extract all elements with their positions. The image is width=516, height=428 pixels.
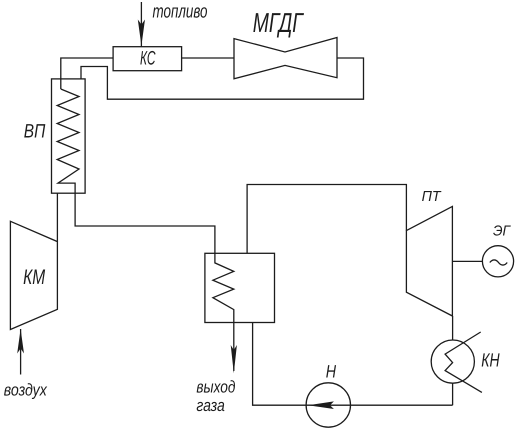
steam generator box	[205, 253, 275, 322]
steam wire to turbine ПТ	[247, 185, 406, 254]
svg-text:МГДГ: МГДГ	[253, 7, 304, 38]
wire МГДГ outlet to ВП shell top	[81, 58, 364, 99]
ВП coil zigzag	[57, 89, 79, 193]
gas exhaust arrow (выход газа)	[231, 323, 237, 374]
wire condenser to pump line	[452, 383, 454, 405]
wire КС to МГДГ	[182, 57, 234, 59]
svg-text:Н: Н	[326, 361, 337, 381]
svg-text:выход: выход	[196, 378, 235, 397]
condensate wire КН to steam generator via pump	[253, 323, 453, 406]
fuel inlet arrow (топливо)	[138, 2, 145, 47]
wire ВП coil top to КС left	[61, 58, 113, 89]
svg-text:КН: КН	[481, 351, 500, 372]
pump Н	[306, 383, 350, 427]
svg-text:КС: КС	[140, 47, 156, 69]
wire ВП gas outlet to steam generator	[75, 193, 215, 253]
svg-text:воздух: воздух	[4, 381, 47, 400]
steam generator gas coil	[213, 253, 234, 322]
wire КМ outlet to ВП bottom	[56, 193, 58, 241]
MHD generator МГДГ	[234, 38, 337, 79]
svg-text:газа: газа	[196, 396, 225, 415]
svg-text:топливо: топливо	[153, 1, 208, 22]
combustion chamber КС	[113, 47, 182, 71]
wire turbine to generator ЭГ	[453, 260, 483, 262]
КН cooling line with zigzag	[445, 332, 482, 392]
air preheater ВП box	[52, 79, 86, 193]
electric generator ЭГ	[482, 246, 513, 277]
svg-text:ВП: ВП	[24, 121, 46, 143]
svg-text:ПТ: ПТ	[422, 189, 442, 205]
compressor КМ	[10, 221, 57, 329]
condenser КН	[431, 340, 474, 383]
svg-text:ЭГ: ЭГ	[493, 224, 511, 240]
wire turbine exhaust to condenser КН	[452, 316, 454, 340]
tilde inside ЭГ	[490, 260, 507, 265]
steam turbine ПТ	[406, 206, 452, 316]
pump flow arrow	[308, 401, 334, 409]
svg-text:КМ: КМ	[23, 266, 45, 289]
air inlet arrow (воздух)	[17, 329, 24, 375]
